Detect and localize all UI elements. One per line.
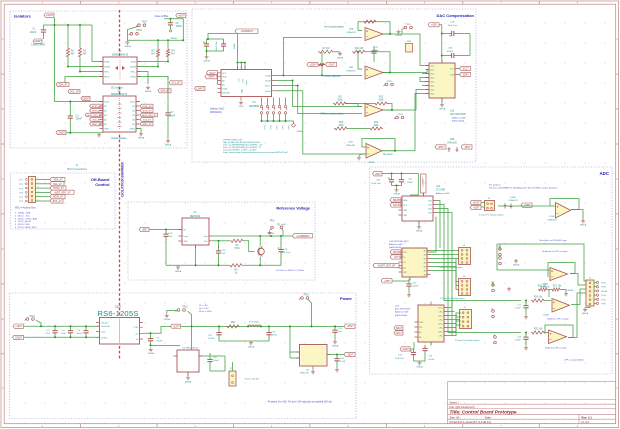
wire (448, 317, 462, 328)
svg-text:BGnd: BGnd (131, 77, 136, 79)
svg-text:B1: B1 (132, 106, 134, 108)
net label -15V (344, 352, 355, 356)
net label +15V (344, 324, 355, 328)
op-amp U6D (366, 144, 382, 159)
wire (448, 321, 462, 332)
wire (167, 40, 169, 48)
wire (424, 65, 429, 67)
junction (54, 325, 56, 327)
wire (79, 25, 81, 47)
svg-text:RGnd: RGnd (104, 77, 109, 79)
svg-text:TP18: TP18 (136, 30, 142, 32)
wire (401, 29, 403, 34)
svg-text:SI8602AB-B-IS: SI8602AB-B-IS (112, 54, 129, 57)
connector J6 (459, 279, 471, 296)
junction (157, 66, 159, 68)
wire (545, 300, 551, 302)
junction (206, 50, 208, 52)
wire (213, 240, 220, 242)
wire (167, 311, 177, 314)
svg-text:10uF: 10uF (61, 333, 66, 335)
junction (357, 51, 359, 53)
svg-text:TP26: TP26 (405, 24, 411, 26)
svg-text:SDA?: SDA? (393, 199, 400, 202)
svg-text:CH2+: CH2+ (438, 316, 443, 318)
wire (36, 320, 41, 326)
ground GNDA (395, 30, 402, 38)
wire (213, 235, 293, 237)
net label SCK_A (90, 118, 103, 122)
wire (43, 37, 45, 39)
wire (525, 313, 527, 315)
svg-text:1uF: 1uF (222, 253, 226, 255)
IC U4 (174, 350, 203, 376)
svg-text:GND?: GND? (15, 336, 22, 339)
net label -15Vb (461, 145, 472, 149)
svg-text:RSTSEL: RSTSEL (222, 93, 231, 95)
junction (85, 325, 87, 327)
test point TP19 (260, 98, 266, 130)
wire (481, 206, 485, 208)
wire (36, 196, 51, 198)
svg-text:R16 2k2: R16 2k2 (538, 286, 547, 288)
svg-text:R25 10k: R25 10k (534, 329, 543, 331)
pin circle (25, 179, 27, 181)
svg-text:+5D?: +5D? (473, 206, 479, 209)
resistor R7 (318, 48, 334, 54)
svg-text:TP1d: TP1d (601, 295, 606, 297)
svg-text:CH0: CH0 (428, 201, 432, 203)
test point TP16 (299, 297, 309, 300)
net label SI3 (390, 255, 401, 259)
junction (67, 66, 69, 68)
net label GNDin (13, 335, 24, 339)
svg-text:[0b0100000]: [0b0100000] (389, 247, 402, 249)
wire (55, 101, 104, 103)
wire (137, 72, 148, 85)
capacitor C14 (332, 326, 337, 336)
junction (525, 332, 527, 334)
ground GNDA (582, 308, 589, 316)
svg-text:Size: A3: Size: A3 (450, 415, 460, 419)
svg-text:Close to ANA: Close to ANA (31, 43, 45, 46)
svg-text:Sheet: /: Sheet: / (450, 400, 460, 404)
svg-text:+3V3?: +3V3? (473, 201, 481, 204)
svg-text:CH1+: CH1+ (430, 66, 435, 68)
svg-text:B3: B3 (132, 115, 134, 117)
svg-text:100nF: 100nF (407, 182, 414, 184)
svg-text:U14B: U14B (543, 314, 549, 316)
wire (415, 94, 424, 151)
svg-text:100k: 100k (339, 125, 345, 127)
svg-text:+Vo: +Vo (135, 333, 138, 335)
junction (69, 132, 71, 134)
svg-text:500nF: 500nF (213, 360, 220, 362)
svg-text:-Vout/CoM: -Vout/CoM (101, 325, 110, 328)
svg-text:A2: A2 (424, 258, 426, 261)
svg-text:TP20: TP20 (270, 125, 272, 129)
svg-text:GNDA: GNDA (185, 381, 192, 384)
wire (444, 262, 521, 301)
test point TPb (499, 256, 502, 265)
net label SDA4 (394, 326, 403, 330)
svg-text:CH4+: CH4+ (438, 332, 443, 334)
junction (282, 74, 284, 76)
capacitor C32 (406, 279, 411, 291)
svg-text:500nF: 500nF (447, 51, 454, 53)
svg-text:OPAx192: OPAx192 (447, 142, 457, 145)
svg-text:VDD2: VDD2 (130, 102, 135, 104)
wire (396, 186, 398, 189)
svg-text:From: www.anaxog.com/media/en/: From: www.anaxog.com/media/en/training-s… (223, 151, 288, 154)
wire (275, 85, 298, 87)
wire (358, 22, 390, 34)
wire (348, 128, 369, 130)
svg-text:TP15: TP15 (29, 316, 35, 318)
svg-text:GNDA: GNDA (513, 264, 520, 267)
junction (70, 325, 72, 327)
svg-text:A4: A4 (104, 119, 106, 122)
pin circle C8 (169, 30, 171, 32)
svg-text:CTRL: CTRL (133, 327, 138, 329)
svg-text:R12: R12 (379, 97, 384, 99)
junction (389, 33, 391, 35)
svg-text:Not used: Not used (383, 153, 393, 156)
wire (570, 274, 586, 286)
svg-text:MCU Connections: MCU Connections (67, 168, 87, 171)
wire (402, 217, 436, 253)
junction (150, 332, 152, 334)
svg-text:10uF Tant: 10uF Tant (371, 182, 381, 185)
wire (164, 18, 183, 20)
resistor R14 (369, 122, 383, 130)
wire (366, 52, 390, 73)
svg-text:-15V?: -15V? (347, 353, 354, 356)
svg-text:GND1: GND1 (104, 129, 109, 131)
svg-text:BVdd: BVdd (131, 62, 136, 64)
wire (437, 209, 449, 301)
IC U13b (415, 302, 448, 346)
svg-text:+5V?: +5V? (178, 14, 185, 18)
wire (409, 277, 411, 279)
capacitor C7 (165, 108, 170, 120)
svg-text:Params code IMPACTS: Multiplyi: Params code IMPACTS: Multiplying Pin MC-… (489, 187, 557, 190)
capacitor C16 (334, 355, 339, 366)
svg-text:BSDA: BSDA (130, 66, 136, 69)
IC U11 (399, 193, 437, 225)
wire (345, 104, 362, 107)
wire (358, 52, 362, 69)
svg-text:[0b1101000]: [0b1101000] (395, 315, 407, 317)
wire (594, 303, 596, 305)
wire (481, 202, 485, 204)
net label SDA (205, 75, 217, 79)
test point TP10 (176, 309, 186, 312)
svg-text:VoutA: VoutA (265, 74, 271, 77)
wire (408, 291, 410, 293)
svg-text:Calculated DPWM: -1.6025 / +0.: Calculated DPWM: -1.6025 / +0.5005 (223, 149, 257, 152)
svg-text:6: 6 (38, 199, 39, 201)
svg-text:SDA?: SDA? (396, 327, 403, 330)
capacitor C12 (207, 353, 212, 368)
svg-text:6.22uF: 6.22uF (208, 338, 215, 340)
resistor R8 (333, 97, 347, 106)
junction (69, 101, 71, 103)
svg-text:GNDA: GNDA (145, 90, 152, 93)
wire (321, 52, 323, 76)
svg-text:CH2+: CH2+ (430, 74, 435, 76)
wire (165, 241, 167, 265)
pin TP1e (596, 298, 606, 301)
capacitor C31 (399, 176, 404, 186)
svg-text:C: C (616, 178, 618, 181)
resistor R5 (230, 239, 244, 250)
svg-text:MOSI_A?: MOSI_A? (53, 196, 64, 199)
svg-text:100k: 100k (374, 125, 380, 127)
svg-text:100nF: 100nF (169, 115, 176, 117)
svg-text:OPAx192: OPAx192 (346, 69, 356, 72)
wire (137, 66, 158, 68)
svg-text:GND?: GND? (83, 97, 90, 100)
svg-text:GND: GND (239, 106, 244, 108)
svg-text:SCL: SCL (450, 69, 454, 71)
svg-text:Vin: Vin (183, 230, 186, 232)
junction (218, 325, 220, 327)
svg-text:+Vout: +Vout (101, 331, 106, 334)
wire (232, 362, 234, 371)
wire (67, 25, 69, 47)
svg-text:BSCL: BSCL (131, 72, 137, 74)
wire (167, 58, 169, 62)
svg-text:GNDA: GNDA (248, 346, 255, 349)
wire (206, 51, 208, 55)
op-amp U14A (550, 268, 568, 281)
svg-text:+12V?: +12V? (15, 325, 23, 328)
svg-text:SCL_B?: SCL_B? (172, 82, 182, 85)
svg-text:A1: A1 (104, 105, 106, 108)
ground GNDA (145, 86, 152, 94)
junction (261, 120, 263, 122)
ground GNDA (268, 231, 272, 235)
svg-text:ALRT_RDY_A?: ALRT_RDY_A? (54, 191, 71, 194)
wire (457, 33, 471, 35)
wire (448, 307, 453, 309)
svg-text:GNDA: GNDA (332, 345, 339, 348)
svg-text:Trim: Trim (204, 241, 208, 243)
wire (207, 33, 209, 39)
svg-text:TP17: TP17 (142, 22, 148, 24)
svg-text:B5: B5 (132, 124, 134, 126)
wire (571, 210, 583, 220)
svg-text:Address 0x68: Address 0x68 (395, 311, 409, 314)
junction (267, 120, 269, 122)
ground GNDA (164, 314, 171, 322)
svg-text:GNDA: GNDA (268, 232, 274, 235)
U3 internal divider (119, 319, 121, 344)
resistor R1 (66, 47, 75, 58)
junction (170, 18, 172, 20)
test point TP22 (278, 98, 284, 130)
svg-text:ALRT_RDY_B?: ALRT_RDY_B? (142, 114, 157, 117)
wire (136, 101, 140, 103)
wire (418, 221, 420, 225)
IC U8b (296, 345, 331, 367)
net label SCL_A (68, 89, 80, 93)
wire (68, 58, 103, 67)
wire (373, 58, 375, 62)
svg-text:OPAref injection: OPAref injection (323, 75, 341, 78)
svg-text:+3.3NREF?: +3.3NREF? (422, 176, 424, 187)
svg-text:GND?: GND? (35, 40, 43, 43)
wire (334, 336, 336, 340)
wire (382, 150, 415, 152)
test point TP20 (266, 98, 272, 130)
wire (36, 191, 51, 193)
wire (431, 254, 461, 256)
svg-text:A0: A0 (419, 331, 421, 334)
capacitor C9 (203, 39, 209, 51)
junction (218, 240, 220, 242)
svg-text:Power: Power (340, 296, 352, 301)
wire (459, 74, 460, 76)
svg-text:MCU = Arduino Uno: MCU = Arduino Uno (15, 207, 36, 210)
wire (550, 199, 579, 210)
wire (336, 365, 338, 368)
capacitor C36 (449, 53, 457, 58)
wire (545, 325, 573, 338)
svg-text:A2: A2 (104, 110, 106, 113)
wire (391, 174, 393, 177)
test point TP11 (270, 226, 283, 230)
net label SDA3 (390, 198, 401, 202)
capacitor C10 (221, 39, 226, 51)
svg-text:RSDA: RSDA (104, 66, 110, 69)
svg-text:CA0: CA0 (403, 209, 407, 212)
svg-text:D: D (2, 248, 4, 251)
svg-text:500nF: 500nF (429, 359, 435, 361)
svg-text:CH3: CH3 (428, 213, 432, 215)
svg-text:+5D?: +5D? (431, 24, 437, 27)
wire (136, 129, 141, 133)
wire (430, 342, 432, 345)
wire (392, 280, 409, 282)
ground GNDA (185, 376, 192, 384)
svg-text:OPGA: OPGA (601, 290, 607, 293)
svg-text:Address 0x40: Address 0x40 (389, 243, 403, 246)
note MCU mapping (15, 207, 38, 230)
net label SCL4 (394, 331, 403, 335)
wire (187, 372, 189, 376)
wire (244, 64, 246, 70)
svg-text:FL2 600R: FL2 600R (249, 321, 259, 323)
net label +5D_1 (428, 23, 439, 27)
junction (311, 325, 313, 327)
svg-text:SCL?: SCL? (463, 67, 470, 70)
wire (188, 311, 192, 326)
wire (157, 40, 159, 48)
svg-text:+5D?: +5D? (384, 280, 390, 283)
svg-text:Vout: Vout (204, 235, 208, 238)
svg-text:B4: B4 (132, 120, 134, 122)
svg-text:Buffered, LPF, x2 gain: Buffered, LPF, x2 gain (547, 318, 569, 321)
wire (431, 263, 461, 282)
svg-text:GNDA: GNDA (124, 45, 131, 48)
resistor R17 (551, 286, 562, 292)
junction (237, 62, 239, 64)
svg-text:U6B: U6B (348, 142, 353, 144)
svg-text:A3: A3 (104, 114, 106, 117)
net label +3V3 (44, 13, 54, 17)
junction (167, 61, 169, 63)
wire (157, 58, 159, 67)
svg-text:R14: R14 (374, 122, 379, 124)
ground GNDA (357, 156, 361, 160)
svg-text:Close to BMe: Close to BMe (155, 15, 170, 18)
svg-text:SDA: SDA (222, 76, 227, 79)
svg-text:CH4-: CH4- (430, 94, 435, 96)
svg-text:GNDA: GNDA (297, 130, 303, 133)
pin circle (25, 187, 27, 189)
svg-text:+15V?: +15V? (347, 325, 355, 328)
svg-text:CH3-: CH3- (439, 328, 444, 330)
wire (410, 342, 414, 349)
junction (394, 150, 396, 152)
wire (259, 257, 261, 266)
wire (442, 33, 449, 35)
svg-text:SCK_A?: SCK_A? (93, 119, 102, 122)
wire (571, 289, 586, 305)
svg-text:Control: Control (95, 182, 109, 187)
wire (437, 205, 445, 263)
wire (151, 344, 181, 346)
svg-text:A6: A6 (424, 274, 426, 277)
svg-text:1uF: 1uF (169, 236, 173, 238)
net label GND_A (81, 96, 90, 100)
svg-text:100nF: 100nF (234, 42, 236, 49)
junction (268, 325, 270, 327)
net label +5V (176, 13, 186, 17)
wire (423, 193, 425, 196)
wire (424, 89, 429, 91)
svg-text:DNP: DNP (407, 41, 412, 43)
wire (422, 73, 429, 75)
wire (448, 319, 460, 321)
wire (54, 18, 56, 102)
wire (24, 336, 100, 338)
wire (441, 98, 443, 103)
svg-text:A4: A4 (424, 266, 426, 269)
wire (499, 244, 501, 250)
pin TP1d (596, 294, 605, 297)
svg-text:100k: 100k (338, 100, 344, 102)
svg-text:TP19: TP19 (264, 125, 266, 129)
wire (293, 81, 362, 107)
wire (594, 290, 596, 292)
wire (383, 72, 427, 74)
svg-text:GNDA: GNDA (393, 193, 400, 196)
U1 internal isolation symbols (115, 60, 125, 80)
wire (422, 85, 429, 87)
resistor R4 (166, 48, 175, 58)
svg-text:3 Down Pin header jumper: 3 Down Pin header jumper (479, 214, 504, 217)
wire (36, 179, 51, 181)
net label SYNC_A? (50, 186, 66, 190)
svg-text:CH4+: CH4+ (430, 90, 435, 92)
section box DAC Compensation (192, 9, 476, 162)
svg-text:4: 4 (38, 191, 39, 193)
svg-text:ADC: ADC (599, 171, 609, 176)
svg-text:LPF is a placeholder: LPF is a placeholder (564, 358, 584, 361)
